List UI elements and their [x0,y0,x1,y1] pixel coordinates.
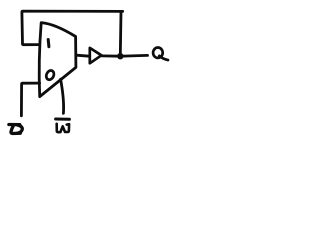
wire top rail, down left side, into mux 1-input [22,11,123,45]
label 1 (mux select-1 input) [47,40,51,47]
wire W-bar select input [61,79,64,113]
label Q [153,48,168,61]
label W-bar (W glyph) [57,124,69,132]
label 0 (mux select-0 input) [45,69,55,81]
wire D input [21,83,39,116]
label W-bar (overline) [56,118,70,121]
wire buffer output to Q [102,54,148,58]
wire feedback loop (Q node up to top rail) [119,12,122,56]
mux U1 (2:1 multiplexer trapezoid) [39,23,76,97]
buffer U2 (triangle) [90,48,102,63]
label D [9,125,22,134]
junction node Q (solder dot) [117,53,123,59]
wire mux output to buffer [76,55,89,56]
